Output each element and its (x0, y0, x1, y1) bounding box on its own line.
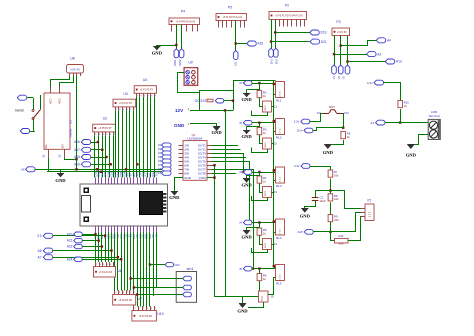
junction (101, 149, 103, 151)
wire (111, 233, 113, 263)
svg-text:P3: P3 (336, 20, 340, 24)
svg-text:3.3v: 3.3v (294, 164, 300, 168)
switch SW1 (32, 98, 40, 120)
resistor R9 (328, 215, 339, 222)
ground (406, 145, 417, 158)
svg-text:EN1: EN1 (269, 58, 273, 64)
resistor R7 (328, 170, 339, 177)
wire (139, 97, 141, 178)
pin COM of Q1 (207, 177, 215, 179)
svg-text:P2: P2 (285, 4, 289, 8)
wire (248, 302, 264, 308)
svg-text:A22: A22 (67, 245, 73, 249)
node flag IN4 (158, 155, 171, 159)
svg-text:A19: A19 (74, 163, 80, 167)
wire (259, 223, 261, 229)
wire (154, 97, 156, 178)
wire (356, 213, 361, 232)
svg-text:8IN: 8IN (184, 171, 189, 175)
wire (137, 294, 139, 296)
svg-text:D22: D22 (175, 263, 181, 267)
wire (236, 43, 247, 45)
ground (323, 145, 334, 156)
svg-text:+5 P1 P2 P3 A1 A2: +5 P1 P2 P3 A1 A2 (222, 16, 242, 19)
wire (274, 169, 276, 171)
wire (122, 110, 124, 177)
node flag IN6 (158, 163, 171, 167)
wire (252, 268, 276, 270)
wire (65, 158, 77, 160)
wire (260, 103, 263, 107)
resistor R6 (257, 274, 267, 281)
transistor J5 (259, 291, 275, 302)
svg-text:ULN2803A: ULN2803A (187, 136, 203, 140)
svg-text:3.3: 3.3 (37, 234, 42, 238)
wire (181, 25, 183, 49)
relay RL2 (276, 119, 285, 140)
junction (117, 256, 119, 258)
hlink module U5 (44, 93, 73, 149)
svg-text:A15: A15 (258, 42, 264, 46)
node flag RLY5 (239, 266, 252, 271)
wire (252, 222, 276, 224)
wire (272, 181, 276, 193)
svg-text:RL2: RL2 (276, 136, 282, 140)
svg-text:+5 P0 P1 P2 P3 P4 P5 GN: +5 P0 P1 P2 P3 P4 P5 GN (275, 16, 303, 18)
svg-text:V2: V2 (337, 75, 341, 79)
wire (130, 233, 132, 291)
wire (48, 158, 50, 172)
wire (121, 233, 123, 291)
svg-text:5K6: 5K6 (339, 242, 344, 246)
junction (258, 82, 260, 84)
wire relay chain (273, 81, 275, 267)
junction (98, 239, 100, 241)
connector U2 (93, 117, 116, 137)
svg-text:GND: GND (241, 235, 252, 240)
svg-text:GND: GND (169, 195, 180, 200)
junction (110, 163, 112, 165)
wire (143, 233, 145, 307)
ground (169, 191, 180, 199)
wire (30, 120, 34, 132)
wire (115, 110, 117, 177)
fuse F1 (207, 99, 213, 102)
svg-text:A4: A4 (387, 39, 391, 43)
wire (199, 110, 233, 112)
node A15 flag (247, 41, 264, 46)
power pin GND (174, 122, 216, 128)
terminal LDR (428, 110, 440, 140)
svg-text:J4: J4 (274, 242, 278, 246)
ground (237, 297, 248, 314)
wire (51, 76, 70, 87)
wire (0, 0, 1, 1)
wire (274, 267, 276, 269)
node flag D33b (37, 233, 105, 238)
wire A4 run (341, 41, 377, 46)
wire (28, 97, 33, 99)
opto module U9 (184, 61, 198, 86)
wire (137, 294, 176, 296)
svg-text:AC2: AC2 (58, 98, 62, 104)
junction (333, 53, 335, 55)
ground (241, 227, 252, 240)
wire (330, 191, 360, 209)
junction (97, 141, 99, 143)
svg-text:+5 P4 P5 P6 A5 A6: +5 P4 P5 P6 A5 A6 (175, 20, 195, 23)
wire (400, 109, 402, 123)
svg-text:Terminal: Terminal (428, 114, 440, 118)
svg-text:1 2 3 4: 1 2 3 4 (279, 128, 281, 135)
speaker flag 1 (173, 49, 179, 66)
wire (313, 128, 343, 131)
wire (126, 110, 128, 177)
svg-text:RL5: RL5 (276, 282, 282, 286)
wire (212, 149, 241, 151)
node flag D35b (38, 255, 118, 260)
wire (316, 191, 331, 196)
node flag RLY2 (239, 120, 252, 125)
wire (268, 278, 276, 295)
wire (330, 202, 332, 214)
wire (98, 135, 100, 177)
svg-text:+5 D1 D2 D3: +5 D1 D2 D3 (99, 272, 113, 274)
node D21 flag (310, 39, 327, 44)
svg-text:DC-EXT: DC-EXT (195, 99, 207, 103)
svg-text:J3: J3 (274, 190, 278, 194)
node flag IN3 (158, 151, 171, 155)
wire (153, 233, 155, 297)
wire (212, 170, 254, 269)
node flag IN7 (158, 167, 171, 171)
pins U1 bottom (94, 226, 159, 239)
wire (330, 222, 332, 232)
wire (140, 233, 142, 307)
junction (104, 235, 106, 237)
wire (247, 89, 260, 91)
junction (105, 156, 107, 158)
wire (259, 235, 261, 240)
label RST (329, 105, 335, 109)
ground (211, 123, 222, 135)
wire (0, 0, 1, 1)
node flag IN8 (158, 171, 171, 175)
svg-text:RL4: RL4 (276, 236, 282, 240)
wire (149, 233, 151, 307)
transistor J1 (263, 101, 278, 112)
wire (105, 233, 107, 263)
svg-text:A2: A2 (377, 52, 381, 56)
wire (143, 97, 145, 178)
svg-text:FS2: FS2 (344, 111, 349, 115)
junction (399, 121, 401, 123)
wire (334, 36, 336, 66)
svg-text:J5: J5 (271, 295, 275, 299)
wire (271, 20, 273, 49)
wire (147, 97, 149, 178)
junction (270, 40, 272, 42)
junction (242, 171, 244, 173)
svg-text:P5: P5 (228, 6, 232, 10)
svg-text:+5 Px P1: +5 Px P1 (70, 68, 80, 71)
wire 12v rail down (225, 110, 227, 296)
svg-text:GND: GND (323, 150, 334, 155)
flag V2 (337, 65, 343, 79)
svg-text:EN2: EN2 (274, 58, 278, 64)
svg-text:2N22: 2N22 (265, 142, 267, 148)
wire (260, 240, 263, 245)
module U1 ESP32 board (80, 184, 168, 226)
wire (133, 110, 135, 177)
pin AC1 (48, 87, 52, 104)
svg-text:GND: GND (300, 214, 311, 219)
node flag A21 (67, 238, 99, 242)
module sm1 (176, 267, 196, 303)
wire (212, 154, 244, 173)
junction (75, 158, 77, 160)
svg-text:J2: J2 (274, 142, 278, 146)
wire (252, 196, 268, 201)
wire rail (47, 171, 162, 173)
svg-text:2N22: 2N22 (265, 242, 267, 248)
svg-text:RST: RST (329, 105, 335, 109)
resistor R3 (257, 128, 267, 135)
svg-text:Switch: Switch (15, 109, 25, 113)
connector P2 (269, 4, 307, 27)
svg-text:SPK2: SPK2 (178, 59, 182, 66)
svg-text:D19: D19 (321, 31, 327, 35)
svg-text:10k: 10k (334, 173, 339, 177)
wire (305, 203, 316, 209)
wire (384, 83, 401, 101)
wire (124, 233, 126, 291)
wire (109, 135, 111, 177)
wire (127, 233, 129, 291)
node flag A24 (67, 257, 121, 261)
svg-text:2N22: 2N22 (262, 295, 264, 301)
wire (252, 83, 276, 85)
ground (55, 169, 66, 183)
svg-text:AC1: AC1 (48, 98, 52, 104)
junction (273, 169, 275, 171)
wire (105, 135, 107, 177)
svg-text:U2: U2 (103, 117, 107, 121)
junction (136, 293, 138, 295)
flag V3 (342, 65, 350, 79)
junction (133, 286, 135, 288)
wire 12V rail (234, 81, 276, 91)
wire (272, 132, 276, 144)
node flag RLY4 (239, 220, 252, 225)
wire (328, 140, 344, 145)
svg-text:1 2 3: 1 2 3 (368, 211, 371, 217)
junction (340, 44, 342, 46)
flag V1 (332, 65, 337, 79)
node D19 flag (310, 30, 327, 35)
wire (212, 165, 215, 167)
wire (0, 0, 1, 1)
node flag 3v3-C (367, 80, 384, 85)
junction (149, 263, 151, 265)
svg-text:U5: U5 (69, 120, 73, 124)
junction (94, 233, 96, 235)
wire (342, 114, 345, 128)
wire (94, 135, 96, 177)
wire (233, 91, 235, 111)
junction (258, 171, 260, 173)
resistor R5 (257, 228, 267, 235)
wire (114, 233, 116, 291)
svg-text:330: 330 (334, 218, 339, 222)
svg-text:GND: GND (241, 183, 252, 188)
wire (330, 179, 332, 194)
node flag A15b (297, 230, 313, 235)
wire (272, 95, 276, 107)
svg-text:+5 P1 P2 P3: +5 P1 P2 P3 (140, 90, 154, 92)
wire (259, 83, 261, 91)
node flag SW-B (20, 129, 35, 134)
svg-text:TX2: TX2 (154, 171, 158, 176)
wire (275, 32, 309, 34)
wire (150, 97, 152, 178)
node A2 flag (367, 52, 382, 57)
connector U3 (113, 92, 136, 111)
svg-text:P4: P4 (181, 10, 185, 14)
junction (130, 277, 132, 279)
svg-text:12V: 12V (175, 108, 184, 113)
wire (157, 25, 177, 49)
wire (212, 145, 239, 147)
wire (129, 110, 131, 177)
wire (40, 95, 42, 110)
junction (101, 245, 103, 247)
wire (131, 278, 177, 280)
wire (76, 159, 78, 169)
junction (213, 176, 215, 178)
wire (150, 264, 165, 266)
node A13 flag (385, 59, 402, 64)
svg-text:J1: J1 (274, 105, 278, 109)
svg-text:A7: A7 (38, 255, 42, 259)
wire (259, 123, 261, 128)
node flag IN2 (158, 147, 171, 151)
connector P3 (332, 20, 350, 43)
wire (134, 287, 176, 289)
wire (259, 135, 261, 140)
relay RL4 (276, 219, 285, 240)
svg-text:+5 D4 D5 D6: +5 D4 D5 D6 (119, 300, 133, 302)
svg-text:A17: A17 (74, 148, 80, 152)
junction (273, 120, 275, 122)
svg-text:1 2 3 4: 1 2 3 4 (279, 176, 281, 183)
wire (260, 140, 263, 144)
svg-text:A6: A6 (38, 249, 42, 253)
relay RL5 (276, 265, 285, 286)
wire loop (200, 91, 234, 111)
wire (340, 36, 342, 66)
wire (313, 231, 355, 233)
wire (259, 281, 261, 291)
svg-text:R11: R11 (339, 234, 344, 238)
wire (113, 135, 115, 177)
svg-text:1 2 3 4: 1 2 3 4 (279, 274, 281, 281)
wire (137, 233, 139, 307)
svg-text:U10: U10 (157, 312, 163, 316)
connector P4 (169, 10, 200, 32)
connector U4 (134, 78, 157, 98)
connector U6 (94, 262, 122, 277)
wire (347, 36, 349, 66)
wire (252, 148, 268, 153)
wire (274, 221, 276, 223)
svg-text:sm1: sm1 (187, 267, 194, 271)
wire (212, 162, 250, 223)
svg-text:A1: A1 (370, 121, 374, 125)
svg-text:GND: GND (184, 176, 192, 180)
junction (248, 221, 250, 223)
pushbutton RST (317, 110, 350, 115)
wire (247, 126, 260, 128)
pin VO+ (43, 143, 49, 158)
driver IC Q1 ULN2803A (179, 133, 212, 181)
junction (329, 189, 331, 191)
svg-text:SPK1: SPK1 (173, 59, 177, 66)
wire (259, 172, 261, 176)
junction (96, 168, 98, 170)
wire (0, 0, 1, 1)
svg-text:HLINK: HLINK (69, 129, 73, 138)
wire (95, 233, 97, 263)
node flag D32b (38, 248, 112, 253)
junction (273, 220, 275, 222)
wire (98, 233, 100, 263)
junction (136, 163, 138, 165)
capacitor C2 (312, 196, 326, 204)
node flag A1 (370, 120, 385, 125)
wire (385, 122, 428, 124)
node flag A22 (67, 244, 102, 248)
connector U10 (132, 306, 164, 321)
wire (310, 167, 331, 171)
wire (102, 135, 104, 177)
svg-text:A13: A13 (396, 60, 402, 64)
wire (334, 54, 367, 56)
svg-text:GND: GND (241, 134, 252, 139)
svg-text:A18: A18 (74, 155, 80, 159)
junction (273, 265, 275, 267)
node A4 flag (376, 38, 391, 43)
svg-text:A21: A21 (67, 239, 73, 243)
wire (212, 157, 247, 159)
wire (259, 269, 261, 274)
junction (100, 171, 102, 173)
wire (247, 175, 260, 177)
node flag IN5 (158, 159, 171, 163)
wire (331, 232, 335, 241)
pin GND of Q1 (175, 178, 184, 192)
wire (156, 233, 158, 289)
wire (117, 233, 119, 291)
junction (0, 0, 1, 1)
wire (274, 84, 276, 86)
svg-text:U3: U3 (123, 92, 127, 96)
svg-text:A15: A15 (297, 230, 303, 234)
svg-text:V1: V1 (332, 75, 336, 79)
ground (300, 209, 311, 219)
flag EN1 (269, 48, 274, 64)
svg-text:1 2 3 4: 1 2 3 4 (279, 91, 281, 98)
